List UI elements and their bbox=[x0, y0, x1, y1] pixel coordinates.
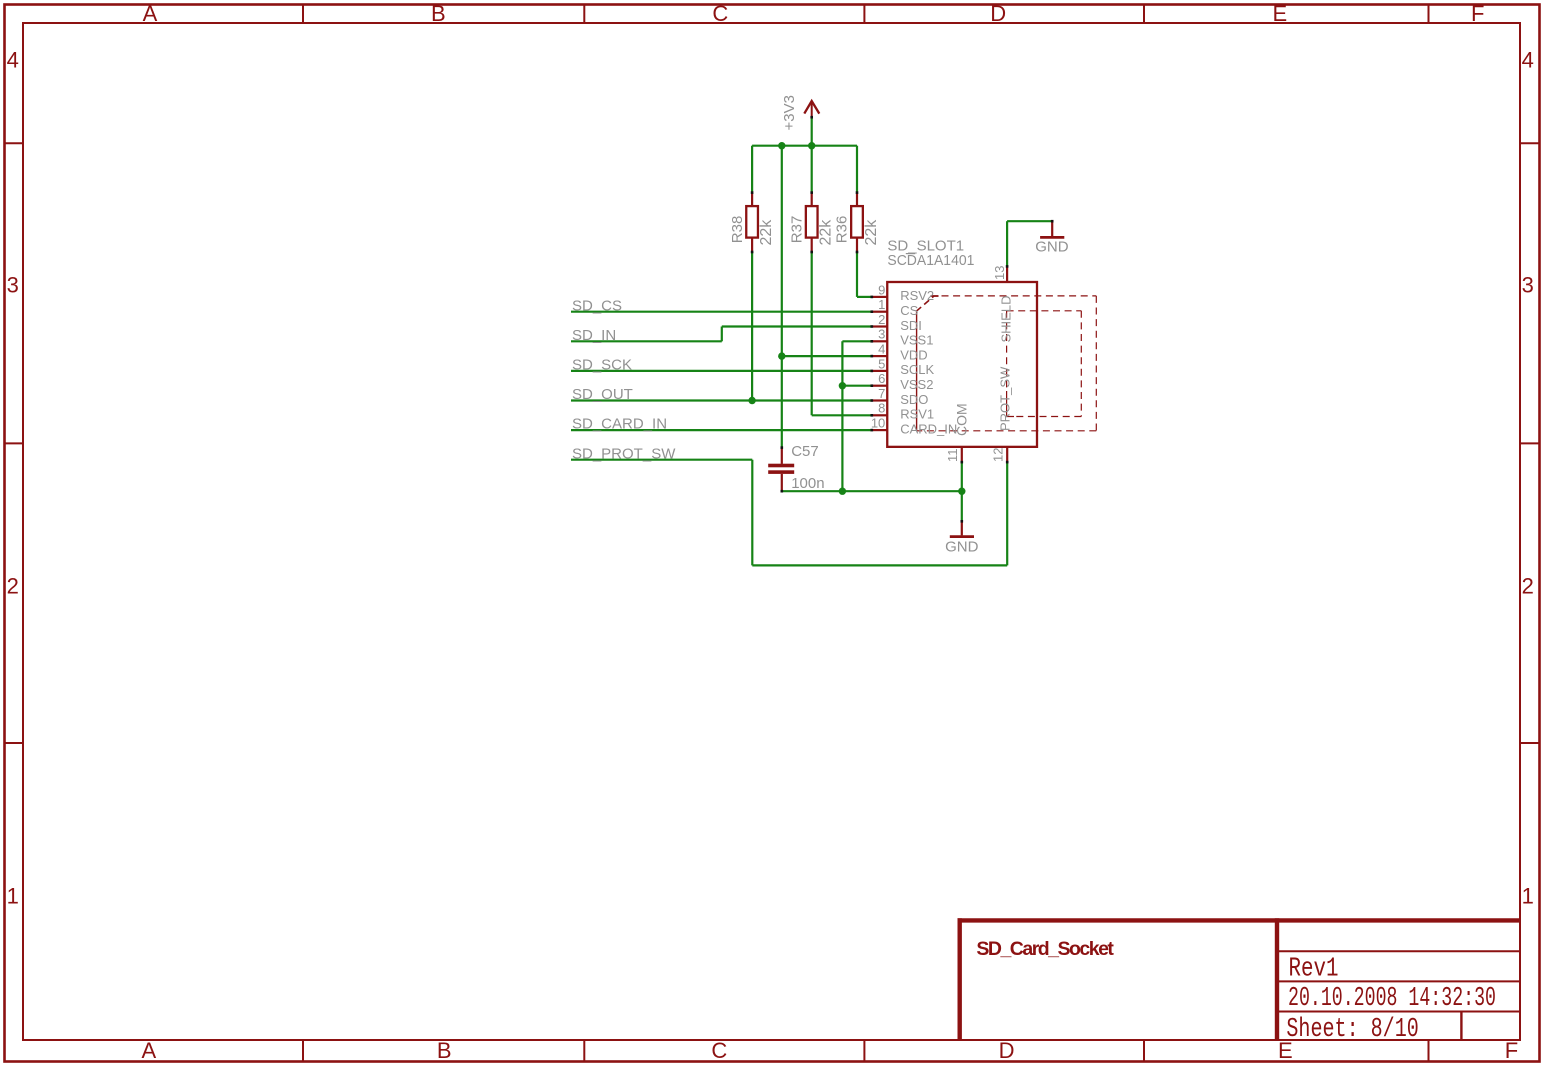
svg-text:SCLK: SCLK bbox=[900, 362, 934, 377]
svg-text:22k: 22k bbox=[758, 219, 775, 246]
svg-text:1: 1 bbox=[1522, 884, 1534, 909]
svg-text:SD_SCK: SD_SCK bbox=[572, 357, 632, 374]
svg-text:D: D bbox=[990, 1, 1006, 26]
svg-text:6: 6 bbox=[878, 371, 885, 386]
svg-text:SD_CS: SD_CS bbox=[572, 297, 622, 314]
svg-text:CARD_IN: CARD_IN bbox=[900, 421, 957, 436]
svg-text:3: 3 bbox=[7, 273, 19, 298]
svg-text:22k: 22k bbox=[863, 219, 880, 246]
svg-text:SD_PROT_SW: SD_PROT_SW bbox=[572, 445, 676, 462]
svg-text:13: 13 bbox=[992, 266, 1007, 280]
svg-text:F: F bbox=[1505, 1038, 1518, 1063]
svg-text:3: 3 bbox=[1522, 273, 1534, 298]
svg-text:A: A bbox=[143, 1, 158, 26]
svg-text:SD_Card_Socket: SD_Card_Socket bbox=[976, 938, 1114, 960]
svg-text:4: 4 bbox=[878, 342, 885, 357]
svg-text:Sheet: 8/10: Sheet: 8/10 bbox=[1286, 1015, 1418, 1045]
svg-text:SDO: SDO bbox=[900, 392, 928, 407]
svg-text:SCDA1A1401: SCDA1A1401 bbox=[887, 252, 974, 269]
svg-text:PROT_SW: PROT_SW bbox=[998, 366, 1013, 431]
svg-text:4: 4 bbox=[1522, 47, 1534, 72]
svg-text:SD_IN: SD_IN bbox=[572, 327, 616, 344]
svg-text:VDD: VDD bbox=[900, 347, 927, 362]
svg-text:C57: C57 bbox=[791, 443, 819, 460]
svg-text:100n: 100n bbox=[791, 475, 824, 492]
svg-text:12: 12 bbox=[991, 448, 1006, 462]
svg-text:SHIELD: SHIELD bbox=[998, 296, 1013, 343]
svg-text:11: 11 bbox=[945, 449, 960, 463]
svg-text:VSS2: VSS2 bbox=[900, 377, 933, 392]
svg-text:20.10.2008 14:32:30: 20.10.2008 14:32:30 bbox=[1288, 984, 1496, 1014]
svg-text:9: 9 bbox=[878, 282, 885, 297]
svg-text:F: F bbox=[1471, 1, 1484, 26]
svg-text:R38: R38 bbox=[729, 216, 746, 244]
svg-text:E: E bbox=[1273, 1, 1288, 26]
svg-text:8: 8 bbox=[878, 401, 885, 416]
svg-text:CS: CS bbox=[900, 303, 918, 318]
svg-text:2: 2 bbox=[7, 574, 19, 599]
svg-text:2: 2 bbox=[878, 312, 885, 327]
svg-text:R36: R36 bbox=[834, 216, 851, 244]
svg-text:D: D bbox=[999, 1038, 1015, 1063]
svg-text:7: 7 bbox=[878, 386, 885, 401]
svg-text:22k: 22k bbox=[818, 219, 835, 246]
svg-text:+3V3: +3V3 bbox=[781, 95, 798, 130]
svg-text:SD_CARD_IN: SD_CARD_IN bbox=[572, 416, 667, 433]
svg-text:GND: GND bbox=[945, 538, 979, 555]
svg-text:5: 5 bbox=[878, 356, 885, 371]
svg-text:2: 2 bbox=[1522, 574, 1534, 599]
svg-text:1: 1 bbox=[7, 884, 19, 909]
svg-text:C: C bbox=[711, 1038, 727, 1063]
svg-text:R37: R37 bbox=[789, 216, 806, 244]
svg-text:1: 1 bbox=[878, 297, 885, 312]
svg-text:C: C bbox=[712, 1, 728, 26]
svg-text:A: A bbox=[142, 1038, 157, 1063]
svg-text:B: B bbox=[431, 1, 446, 26]
svg-text:COM: COM bbox=[953, 403, 969, 436]
svg-text:GND: GND bbox=[1035, 238, 1069, 255]
svg-text:B: B bbox=[437, 1038, 452, 1063]
svg-text:4: 4 bbox=[7, 47, 19, 72]
svg-text:SDI: SDI bbox=[900, 318, 922, 333]
svg-text:RSV2: RSV2 bbox=[900, 288, 934, 303]
svg-text:10: 10 bbox=[871, 416, 885, 431]
svg-text:SD_OUT: SD_OUT bbox=[572, 386, 633, 403]
svg-text:RSV1: RSV1 bbox=[900, 407, 934, 422]
svg-text:3: 3 bbox=[878, 327, 885, 342]
svg-text:Rev1: Rev1 bbox=[1289, 955, 1339, 985]
svg-text:VSS1: VSS1 bbox=[900, 333, 933, 348]
